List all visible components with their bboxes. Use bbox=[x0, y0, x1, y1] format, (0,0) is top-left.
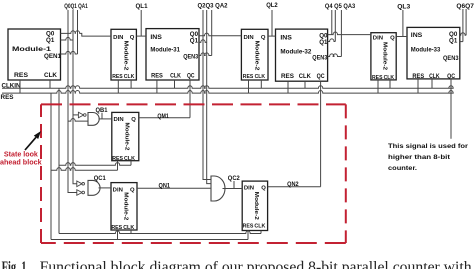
wire QB1 upper input bbox=[73, 114, 78, 116]
svg-text:Q6Q7: Q6Q7 bbox=[456, 3, 474, 10]
wire Module-31 RES pin bbox=[156, 80, 158, 93]
svg-text:This signal is used for: This signal is used for bbox=[388, 143, 468, 150]
wire QN2 RES pin bbox=[247, 231, 249, 240]
wire QN2 CLK pin bbox=[260, 231, 262, 234]
wire CLK drop line bbox=[58, 88, 60, 233]
wire Q4 line bbox=[331, 10, 333, 35]
wire Module-32 QC pin down to QN2 bbox=[320, 81, 322, 187]
module Module-2 (second pipeline DFF) bbox=[241, 29, 268, 80]
inverter at QC1 lower input bbox=[77, 190, 82, 196]
svg-text:Q1: Q1 bbox=[46, 37, 55, 44]
wire Module-32 Q1 out bbox=[328, 39, 336, 42]
svg-text:Module-2: Module-2 bbox=[253, 41, 259, 71]
svg-text:QEN3: QEN3 bbox=[312, 54, 327, 61]
svg-text:QEN3: QEN3 bbox=[183, 53, 198, 60]
module Module-2 QM1 stage bbox=[112, 112, 139, 160]
wire QN1 out to QC2 gate bbox=[137, 187, 211, 189]
wire Q3 line bbox=[207, 10, 212, 184]
svg-text:CLK: CLK bbox=[429, 73, 440, 80]
svg-text:QC1: QC1 bbox=[94, 175, 107, 182]
wire QN2 out bbox=[268, 186, 321, 188]
wire QB1 gate output to QM1 DIN bbox=[99, 118, 112, 120]
svg-text:Q4 Q5 QA3: Q4 Q5 QA3 bbox=[325, 3, 355, 10]
module Module-2 QN2 stage bbox=[242, 181, 267, 230]
wire Module-31 CLK pin bbox=[174, 80, 176, 88]
wire QA3 line bbox=[340, 10, 342, 57]
wire Module-1 QEN1 out bbox=[61, 51, 78, 54]
wire Module-31 QC pin down to QM1 bbox=[189, 80, 191, 118]
wire QM1 RES pin bbox=[117, 161, 119, 171]
wire DFF1 CLK pin bbox=[130, 80, 132, 88]
wire Module-1 RES pin bbox=[19, 80, 21, 93]
svg-text:RES: RES bbox=[111, 225, 122, 231]
wire DFF2 RES pin bbox=[248, 80, 250, 93]
module Module-2 (third pipeline DFF) bbox=[371, 33, 396, 80]
wire Q2 line bbox=[203, 10, 211, 180]
svg-text:CLK: CLK bbox=[123, 225, 134, 231]
wire Module-32 QEN3 out bbox=[328, 54, 342, 57]
wire Q6 line bbox=[462, 9, 464, 42]
svg-text:Q0Q1 QA1: Q0Q1 QA1 bbox=[64, 3, 88, 10]
wire DFF3 CLK pin bbox=[389, 80, 391, 88]
svg-text:CLK: CLK bbox=[170, 72, 181, 79]
svg-text:INS: INS bbox=[411, 32, 423, 39]
svg-text:Q: Q bbox=[261, 35, 266, 41]
svg-text:Q: Q bbox=[261, 186, 266, 192]
svg-text:Module-2: Module-2 bbox=[382, 42, 388, 70]
svg-text:Q1: Q1 bbox=[449, 37, 458, 44]
svg-text:QC2: QC2 bbox=[228, 175, 241, 182]
module Module-2 QN1 stage bbox=[111, 183, 137, 230]
svg-text:CLK: CLK bbox=[254, 223, 265, 229]
svg-text:Module-33: Module-33 bbox=[411, 47, 441, 54]
svg-text:Q: Q bbox=[130, 188, 135, 194]
module Module-2 (first pipeline DFF) bbox=[111, 29, 136, 80]
svg-text:State look: State look bbox=[4, 151, 38, 158]
arrow to state look ahead block bbox=[25, 137, 36, 150]
wire CLK rail upper bbox=[59, 163, 131, 166]
wire RES bus bbox=[2, 91, 453, 94]
wire QC1 gate output to QN1 DIN bbox=[99, 187, 112, 189]
svg-text:INS: INS bbox=[150, 34, 162, 41]
wire Q0 line bbox=[68, 10, 77, 193]
wire Q5 line bbox=[334, 10, 336, 42]
wire DFF1 Q to Module-31 INS bbox=[136, 35, 146, 37]
svg-text:RES: RES bbox=[14, 72, 28, 79]
svg-text:QN1: QN1 bbox=[159, 182, 171, 189]
svg-text:Q1: Q1 bbox=[319, 39, 328, 46]
wire Module-1 Q1 out bbox=[61, 37, 74, 40]
wire Module-33 RES pin bbox=[417, 79, 419, 93]
wire CLKIN bus bbox=[2, 86, 453, 89]
svg-text:Module-1: Module-1 bbox=[12, 46, 52, 53]
wire QL2 line bbox=[271, 10, 273, 36]
svg-text:counter.: counter. bbox=[388, 165, 417, 172]
svg-text:RES: RES bbox=[372, 75, 383, 81]
svg-text:CLK: CLK bbox=[124, 74, 135, 80]
svg-text:Fig. 1.Functional block diagra: Fig. 1.Functional block diagram of our p… bbox=[2, 259, 472, 269]
svg-text:INS: INS bbox=[280, 34, 292, 41]
svg-text:RES: RES bbox=[1, 94, 14, 101]
wire Module-32 RES pin bbox=[287, 81, 289, 93]
wire DFF1 RES pin bbox=[117, 80, 119, 93]
wire CLK rail lower bbox=[59, 231, 261, 234]
wire Module-31 Q1 out bbox=[199, 40, 207, 43]
svg-text:QEN3: QEN3 bbox=[443, 55, 459, 62]
wire QB1 lower input bbox=[68, 119, 88, 122]
svg-text:Module-32: Module-32 bbox=[280, 48, 311, 55]
svg-text:CLK: CLK bbox=[124, 156, 135, 162]
svg-text:QC: QC bbox=[317, 73, 325, 80]
svg-text:QN2: QN2 bbox=[287, 181, 299, 188]
svg-text:RES: RES bbox=[412, 73, 424, 80]
wire QN1 CLK pin bbox=[130, 230, 132, 234]
svg-text:Module-2: Module-2 bbox=[253, 192, 259, 220]
wire QN1 RES pin bbox=[117, 230, 119, 240]
wire QL1 line bbox=[140, 10, 142, 36]
wire DFF3 Q to Module-33 INS bbox=[396, 36, 407, 38]
wire QA1 line bbox=[77, 10, 79, 54]
wire Module-33 Q0 out bbox=[460, 33, 466, 36]
wire Module-1 CLK pin bbox=[49, 80, 51, 88]
wire DFF3 RES pin bbox=[377, 80, 379, 93]
svg-text:QC: QC bbox=[187, 72, 195, 79]
svg-text:Q: Q bbox=[130, 35, 135, 41]
module Module-1 bbox=[8, 29, 61, 80]
wire Module-32 Q0 out bbox=[328, 32, 371, 35]
svg-text:QL1: QL1 bbox=[136, 3, 148, 10]
svg-text:Q: Q bbox=[131, 117, 136, 123]
wire Module-33 Q1 out bbox=[460, 41, 463, 43]
wire DFF2 Q to Module-32 INS bbox=[268, 35, 276, 37]
and-gate QC1 bbox=[88, 180, 100, 195]
wire QC2 gate output to QN2 DIN bbox=[223, 188, 243, 190]
svg-text:Module-2: Module-2 bbox=[123, 41, 129, 71]
wire QM1 out bbox=[139, 117, 190, 119]
wire DFF2 CLK pin bbox=[260, 80, 262, 88]
wire Module-33 CLK pin bbox=[431, 79, 433, 88]
wire QA2 line bbox=[211, 10, 213, 56]
svg-text:Module-2: Module-2 bbox=[124, 122, 130, 150]
inverter at QB1 input bbox=[78, 112, 83, 118]
svg-text:ahead block: ahead block bbox=[0, 160, 42, 167]
svg-text:QL2: QL2 bbox=[266, 2, 278, 9]
svg-text:DIN: DIN bbox=[113, 35, 123, 41]
svg-text:CLK: CLK bbox=[255, 74, 266, 80]
svg-text:RES: RES bbox=[281, 73, 294, 80]
svg-text:CLK: CLK bbox=[299, 73, 311, 80]
svg-text:QL3: QL3 bbox=[397, 4, 410, 11]
wire RES rail lower bbox=[51, 239, 248, 241]
svg-text:RES: RES bbox=[151, 72, 163, 79]
wire Module-31 QEN3 out bbox=[199, 53, 212, 56]
wire Module-33 QC pin (unused) bbox=[450, 79, 452, 139]
svg-text:Q2Q3 QA2: Q2Q3 QA2 bbox=[198, 3, 228, 10]
state look ahead block dashed border bbox=[41, 103, 346, 105]
svg-text:RES: RES bbox=[243, 74, 254, 80]
module Module-32 bbox=[276, 29, 328, 81]
svg-text:DIN: DIN bbox=[373, 35, 383, 41]
wire QL3 line bbox=[402, 10, 404, 37]
wire Q1 line bbox=[73, 10, 77, 184]
svg-text:Q: Q bbox=[390, 35, 395, 41]
svg-text:DIN: DIN bbox=[114, 117, 124, 123]
inverter at QC1 upper input bbox=[77, 181, 82, 187]
svg-text:QEN1: QEN1 bbox=[44, 53, 62, 60]
svg-text:DIN: DIN bbox=[244, 35, 254, 41]
and-gate QB1 bbox=[88, 113, 99, 126]
svg-text:RES: RES bbox=[243, 223, 254, 229]
wire Module-1 Q0 out bbox=[61, 31, 112, 36]
and-gate QC2 bbox=[211, 176, 225, 201]
svg-text:QM1: QM1 bbox=[157, 113, 169, 120]
svg-text:Q1: Q1 bbox=[190, 38, 199, 45]
module Module-33 bbox=[407, 27, 460, 79]
svg-text:Module-2: Module-2 bbox=[122, 192, 128, 220]
svg-text:higher than 8-bit: higher than 8-bit bbox=[388, 154, 451, 161]
svg-text:CLK: CLK bbox=[384, 75, 395, 81]
svg-text:CLK: CLK bbox=[44, 72, 58, 79]
svg-text:Module-31: Module-31 bbox=[150, 47, 180, 54]
svg-text:QC: QC bbox=[447, 73, 455, 80]
svg-text:DIN: DIN bbox=[113, 188, 123, 194]
svg-text:RES: RES bbox=[112, 74, 123, 80]
module Module-31 bbox=[146, 29, 199, 80]
wire QM1 CLK pin bbox=[130, 161, 132, 166]
svg-text:DIN: DIN bbox=[244, 186, 254, 192]
wire Module-31 Q0 out bbox=[199, 33, 241, 36]
wire RES rail upper bbox=[51, 168, 118, 171]
wire Module-32 CLK pin bbox=[304, 81, 306, 88]
wire Q7 line bbox=[465, 9, 467, 35]
wire RES drop line bbox=[50, 93, 52, 239]
